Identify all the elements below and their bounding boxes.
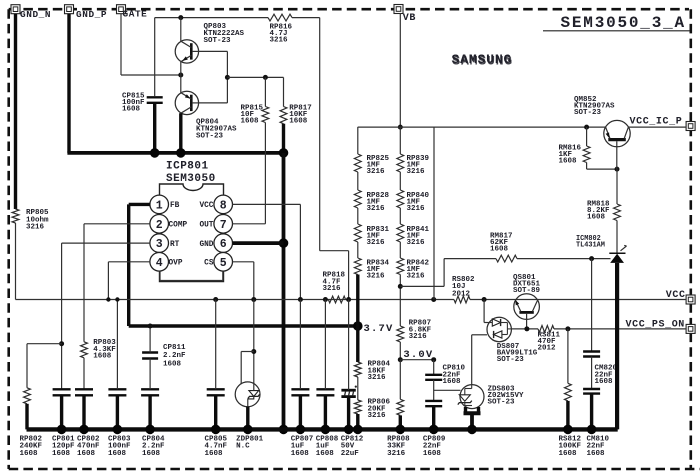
wire DS807 top entry [484, 300, 487, 323]
wire CP815 to GND_P bus (thick) [153, 104, 156, 153]
op-amp U1 ICP801 SEM3050 (controller IC) [150, 161, 233, 282]
wire FB row 3.7V (thick) [129, 324, 358, 327]
wire pin8 VCC right [233, 203, 301, 205]
node bus junction [145, 425, 155, 435]
wire long rail right (VCC) [470, 299, 686, 301]
wire QM852 to RM818 [616, 169, 618, 204]
svg-text:SOT-23: SOT-23 [574, 109, 602, 117]
svg-text:3216: 3216 [368, 412, 387, 420]
capacitor CP811 [142, 344, 186, 368]
svg-text:ICP801: ICP801 [166, 161, 209, 173]
wire CP811 riser [149, 326, 151, 353]
wire QP803 collector up [180, 18, 182, 42]
svg-text:VCC: VCC [199, 202, 213, 210]
resistor RP802 [20, 388, 43, 458]
svg-text:3216: 3216 [367, 205, 386, 213]
wire CP801 to bus (thick) [60, 395, 63, 429]
node bus junction [211, 425, 221, 435]
terminal GND_P [65, 5, 108, 20]
wire VB down [399, 14, 401, 128]
svg-text:RT: RT [170, 241, 180, 249]
label 3.7V [364, 323, 394, 335]
wire CP811 to CP804 [149, 359, 151, 390]
resistor RP816 [268, 14, 293, 44]
capacitor CM810 [583, 389, 609, 458]
svg-text:SOT-89: SOT-89 [513, 287, 541, 295]
node bus junction [113, 425, 123, 435]
capacitor CP815 [122, 93, 163, 114]
wire FB to RP804 (thick) [356, 326, 359, 362]
node bus junction [563, 425, 573, 435]
node rail CP808 junction [323, 297, 328, 302]
capacitor CP807 [291, 389, 314, 458]
wire ladder top rail [358, 126, 686, 128]
wire CP802 to bus (thick) [82, 395, 85, 429]
wire QP804 emitter up [180, 75, 182, 93]
node rail DS807 junction [482, 297, 487, 302]
wire CP805 riser [215, 300, 217, 390]
terminal VCC_IC_P [630, 116, 696, 130]
resistor RP815 [241, 77, 269, 125]
resistor RP817 [280, 77, 312, 125]
svg-text:2012: 2012 [538, 345, 557, 353]
svg-text:3216: 3216 [407, 273, 426, 281]
zener diode ZDS803 [458, 385, 524, 409]
wire pin6 GND (thick) [233, 241, 284, 245]
node RT junction [59, 341, 64, 346]
svg-text:1608: 1608 [122, 106, 141, 114]
wire top rail left [155, 17, 268, 19]
svg-text:GND_P: GND_P [76, 9, 107, 20]
wire CP812 to bus (thick) [347, 397, 350, 430]
wire FB column (thick) [127, 204, 130, 326]
node rail CP805 junction [213, 297, 218, 302]
node bus junction [353, 425, 363, 435]
svg-text:SOT-23: SOT-23 [196, 133, 224, 141]
wire CP809 to bus (thick) [432, 406, 435, 429]
terminal GND_N [11, 5, 51, 20]
wire 3.0V to CP810 [433, 360, 435, 374]
svg-text:1608: 1608 [587, 450, 606, 458]
node QS801 collector junction [524, 326, 529, 331]
terminal VCC [666, 290, 695, 304]
wire GND_N down (thick) [14, 14, 17, 209]
capacitor CP809 [423, 401, 446, 458]
wire RM816 bottom [587, 163, 617, 170]
frame border bottom dashed [9, 468, 700, 471]
resistor RP805 [12, 209, 49, 232]
node bus junction [429, 425, 439, 435]
svg-text:8: 8 [220, 199, 227, 212]
wire jog drop to rail [348, 251, 350, 300]
wire RM818 to TL431 [616, 221, 618, 254]
wire RP817 to bus (thick) [282, 124, 285, 153]
wire CP808 to bus (thick) [324, 395, 327, 429]
capacitor CM820 [583, 352, 617, 387]
svg-text:3216: 3216 [26, 224, 45, 232]
label RP840 [407, 192, 430, 213]
wire CP803 to bus (thick) [116, 395, 119, 429]
resistor RP818 [323, 272, 346, 303]
svg-text:4: 4 [156, 257, 163, 270]
wire pin7 OUT right [233, 223, 266, 225]
svg-text:1608: 1608 [241, 118, 260, 126]
node RP842 RM817 junction [398, 284, 403, 289]
node REF chain junction [589, 256, 594, 261]
wire base tie vertical [226, 51, 228, 103]
node bus junction [243, 425, 253, 435]
svg-text:6: 6 [220, 238, 227, 251]
resistor RS802 [452, 276, 475, 303]
svg-text:3: 3 [156, 238, 163, 251]
capacitor CP812 (electrolytic) [341, 386, 364, 458]
wire CP810-CP809 link [433, 380, 435, 401]
wire ZDS803 pad (thick) [464, 407, 481, 429]
wire VCC_PS_ON left [511, 328, 538, 330]
svg-text:SEM3050_3_A: SEM3050_3_A [561, 14, 686, 32]
svg-text:SEM3050: SEM3050 [166, 173, 216, 185]
node CP803 rail junction [115, 297, 119, 301]
terminal GATE [117, 5, 148, 20]
node bus junction [296, 425, 306, 435]
wire RP816 drop [319, 18, 321, 251]
svg-text:FB: FB [170, 202, 180, 210]
svg-text:1608: 1608 [77, 450, 96, 458]
resistor RM816 [559, 127, 591, 165]
frame border top dashed [9, 8, 689, 11]
resistor RM817 [490, 233, 517, 263]
svg-text:OVP: OVP [169, 260, 183, 268]
wire RP806 to bus (thick) [356, 414, 359, 429]
wire VCC_PS_ON right [554, 328, 686, 330]
shunt regulator ICM802 TL431AM [576, 235, 627, 263]
wire riser VB-rail [433, 127, 435, 299]
label RP842 [407, 260, 430, 281]
wire RM817 to TL431 [517, 258, 611, 260]
transistor QM852 [574, 96, 630, 147]
label 3.0V [403, 349, 433, 361]
svg-text:3216: 3216 [323, 285, 342, 293]
title SEM3050_3_A [543, 14, 690, 32]
svg-text:3216: 3216 [367, 168, 386, 176]
svg-text:GND: GND [199, 241, 213, 249]
wire GND_P down (thick) [67, 14, 70, 153]
node VB junction [398, 125, 403, 130]
transistor QP803 [175, 23, 244, 63]
node bus junction [321, 425, 331, 435]
wire pin3 RT left [62, 242, 151, 244]
wire pin2 COMP left [84, 223, 150, 225]
svg-text:1608: 1608 [20, 450, 39, 458]
svg-text:1608: 1608 [587, 213, 606, 221]
svg-text:2012: 2012 [452, 290, 471, 298]
node RM816 top junction [584, 125, 589, 130]
svg-text:1608: 1608 [163, 360, 182, 368]
svg-text:22uF: 22uF [341, 450, 360, 458]
wire RP804-RP806 link [357, 377, 359, 400]
node 3.0V left junction [398, 357, 403, 362]
wire mid to ZDS803 [434, 389, 461, 391]
node 3.0V right junction [431, 357, 436, 362]
label RP834 [367, 260, 390, 281]
wire ladder left thick to FB [356, 275, 359, 327]
wire RP803 to CP802 [83, 358, 85, 390]
svg-text:3216: 3216 [409, 333, 428, 341]
wire RS812 link [567, 329, 569, 383]
capacitor CP810 [425, 365, 465, 387]
node rail CS junction [251, 297, 256, 302]
svg-text:VCC_IC_P: VCC_IC_P [630, 116, 683, 127]
wire pin4 OVP left [108, 261, 150, 263]
wire CP805 to bus (thick) [214, 395, 217, 429]
wire RP808 link [399, 360, 401, 400]
node bus junction [344, 425, 354, 435]
svg-text:1608: 1608 [291, 450, 310, 458]
node GND column bus junction [279, 425, 289, 435]
node CP815 bus junction [150, 148, 160, 158]
svg-text:2.2nF: 2.2nF [163, 352, 186, 360]
wire DS807 left to ZDS803 [472, 335, 487, 385]
wire RP805 to long rail [15, 223, 17, 300]
node rail CP807 junction [298, 297, 303, 302]
node bus junction [587, 425, 597, 435]
terminal VCC_PS_ON [626, 319, 696, 333]
resistor RP807 [397, 320, 432, 343]
node bus junction [396, 425, 406, 435]
capacitor CP805 [205, 389, 228, 458]
svg-text:1608: 1608 [93, 353, 112, 361]
node rail CP812 junction [346, 297, 351, 302]
wire CM820-CM810 link [591, 357, 593, 390]
svg-text:1608: 1608 [108, 450, 127, 458]
svg-text:1608: 1608 [559, 157, 578, 165]
capacitor CP804 [141, 389, 165, 458]
svg-text:SOT-23: SOT-23 [488, 399, 516, 407]
svg-text:OUT: OUT [199, 222, 213, 230]
svg-text:TL431AM: TL431AM [576, 242, 605, 250]
node bus junction [57, 425, 67, 435]
resistor RS811 [538, 326, 561, 353]
wire RP816 jog [320, 250, 349, 252]
svg-text:COMP: COMP [169, 222, 188, 230]
wire pin4 OVP down [107, 262, 109, 300]
wire GATE to emitters [121, 74, 181, 76]
svg-text:1608: 1608 [423, 450, 442, 458]
node GND_P bus end junction [279, 148, 289, 158]
svg-text:3216: 3216 [407, 205, 426, 213]
node QM852 collector junction [615, 167, 620, 172]
node QP803 collector junction [178, 15, 183, 20]
svg-text:3216: 3216 [367, 273, 386, 281]
wire CP808 riser [324, 300, 326, 390]
wire RM817 jog [400, 259, 496, 287]
svg-text:1608: 1608 [490, 245, 509, 253]
svg-text:1: 1 [156, 199, 163, 212]
wire RP815 to pin7 [264, 123, 266, 224]
wire RP842 to junction [399, 275, 401, 327]
wire QP804 base right [199, 102, 228, 104]
svg-text:N.C: N.C [236, 443, 250, 451]
wire main ground bus (thick) [27, 427, 618, 431]
label RP831 [367, 226, 390, 247]
resistor RP825 [354, 127, 389, 275]
wire ZDP801 bracket [241, 352, 254, 385]
svg-text:3216: 3216 [270, 36, 289, 44]
wire pin1 FB (thick) [129, 203, 151, 206]
svg-text:3216: 3216 [387, 450, 406, 458]
svg-text:1608: 1608 [443, 378, 462, 386]
node QP804 bus junction [176, 148, 186, 158]
svg-text:1608: 1608 [559, 450, 578, 458]
wire QP804 collector down (thick) [179, 113, 182, 153]
wire pin3 RT down [61, 243, 63, 389]
label RP841 [407, 226, 430, 247]
svg-text:CP811: CP811 [163, 344, 186, 352]
resistor RP839 [397, 127, 430, 274]
wire RP802 to bus (thick) [25, 404, 28, 430]
wire RS812 to bus (thick) [566, 401, 569, 430]
svg-text:7: 7 [220, 219, 227, 232]
node pin6 junction [279, 238, 289, 248]
svg-text:SAMSUNG: SAMSUNG [452, 52, 513, 67]
wire pin5 CS down [253, 262, 255, 300]
wire QM852 base down [616, 141, 618, 169]
svg-text:GND_N: GND_N [20, 9, 51, 20]
wire CM810 to bus (thick) [590, 394, 593, 430]
wire REF to CM820 [591, 259, 593, 351]
wire long rail left [16, 299, 455, 301]
resistor RP803 [81, 339, 117, 361]
svg-text:1608: 1608 [316, 450, 335, 458]
node pin4 rail junction [106, 297, 110, 301]
wire QS801 base down [526, 314, 528, 329]
frame border right dashed [689, 9, 692, 469]
wire CP804 to bus (thick) [148, 395, 151, 429]
node RS812 top junction [565, 326, 570, 331]
transistor QP804 [175, 91, 237, 140]
wire RP807 down [399, 342, 401, 360]
label RP828 [367, 192, 390, 213]
svg-text:1608: 1608 [52, 450, 71, 458]
wire top rail right [292, 17, 320, 19]
wire 3.0V rail [400, 359, 433, 361]
svg-text:CS: CS [204, 260, 214, 268]
node rail 433 junction [431, 297, 436, 302]
svg-text:1608: 1608 [142, 450, 161, 458]
capacitor CP803 [108, 389, 131, 458]
resistor RP804 [354, 361, 390, 383]
svg-text:2: 2 [156, 219, 163, 232]
svg-text:1608: 1608 [205, 450, 224, 458]
svg-text:VB: VB [403, 13, 416, 24]
zener diode ZDP801 [235, 382, 263, 451]
node bus junction [467, 425, 477, 435]
svg-text:SOT-23: SOT-23 [204, 37, 232, 45]
resistor RS812 [559, 383, 582, 458]
node ZDP801 bracket junction [251, 349, 256, 354]
node base tie junction [225, 75, 230, 80]
wire QP803 emitter down [180, 62, 182, 75]
node CP811 FB junction [148, 324, 153, 329]
svg-text:3216: 3216 [407, 239, 426, 247]
transistor QS801 [513, 274, 541, 320]
wire base tie to resistors [227, 76, 283, 78]
resistor RP808 [387, 399, 410, 458]
wire CP815 riser [154, 18, 156, 97]
wire pin4-pin5 bracket [160, 271, 223, 280]
wire GATE down [120, 14, 122, 75]
svg-text:3.7V: 3.7V [364, 323, 394, 335]
wire GND column (thick) [282, 153, 286, 430]
diode DS807 [487, 317, 538, 364]
node bus junction [79, 425, 89, 435]
wire RP808 to bus (thick) [399, 415, 402, 429]
frame border left dashed [7, 9, 10, 469]
node RP815 top junction [263, 75, 268, 80]
svg-text:SOT-23: SOT-23 [497, 356, 525, 364]
capacitor CP802 [75, 389, 100, 458]
capacitor CP808 [316, 389, 339, 458]
wire CS to ZDP801 [253, 300, 255, 391]
wire pin8 VCC down [299, 204, 301, 299]
wire CP807 riser [299, 300, 301, 390]
wire CP812 riser [348, 300, 350, 391]
svg-text:3216: 3216 [368, 374, 387, 382]
wire pin2 COMP down [83, 224, 85, 342]
svg-text:3216: 3216 [367, 239, 386, 247]
terminal VB [394, 5, 416, 25]
wire RP802 jog [27, 344, 62, 388]
resistor RM818 [587, 201, 620, 222]
SAMSUNG logo [452, 52, 513, 68]
wire CP803 riser [116, 300, 118, 390]
wire CP807 to bus (thick) [299, 395, 302, 429]
svg-text:3216: 3216 [407, 168, 426, 176]
wire GND_P bus (thick) [67, 151, 283, 155]
svg-text:GATE: GATE [123, 9, 148, 20]
wire pin5 CS right [233, 261, 254, 263]
wire TL431 anode to bus (thick) [615, 263, 619, 430]
wire QP803 base right [199, 50, 228, 52]
svg-text:1608: 1608 [595, 378, 614, 386]
resistor RP806 [354, 399, 390, 421]
svg-text:5: 5 [220, 257, 227, 270]
capacitor CP801 [52, 389, 75, 458]
node GATE-emitter junction [178, 73, 183, 78]
svg-text:1608: 1608 [289, 118, 308, 126]
node FB 3.7V junction [353, 321, 363, 331]
wire ZDP801 to bus (thick) [246, 407, 249, 430]
